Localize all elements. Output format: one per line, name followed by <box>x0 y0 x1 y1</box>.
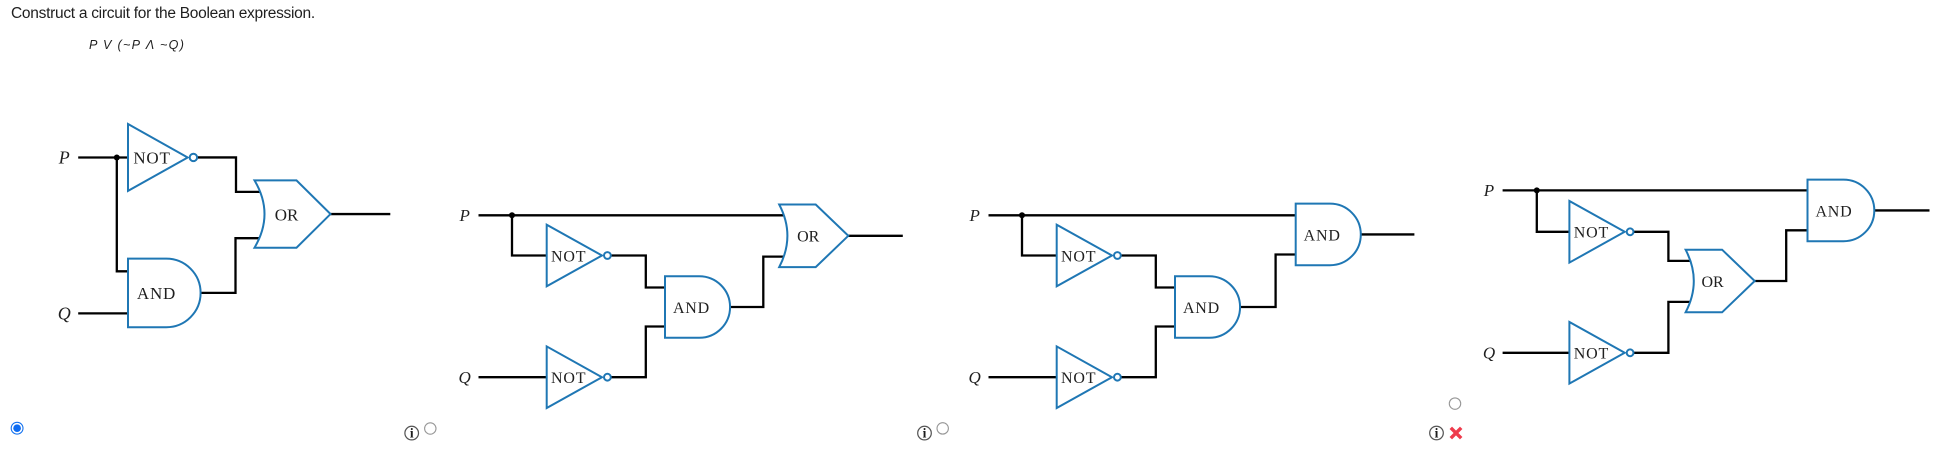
info icon option 3 <box>918 426 932 441</box>
svg-text:Q: Q <box>1483 344 1495 363</box>
wire AND output (circuit 4) <box>1874 209 1929 211</box>
wire OR output (circuit 1) <box>331 213 391 215</box>
junction on P (circuit 4) <box>1534 187 1540 193</box>
wire OR output (circuit 2) <box>848 235 903 237</box>
svg-text:i: i <box>1435 426 1439 441</box>
junction on P (circuit 1) <box>114 155 120 161</box>
wire P input to AND top input (circuit 4) <box>1503 189 1808 191</box>
wire NOT output to OR top input (circuit 1) <box>194 157 263 191</box>
svg-text:OR: OR <box>275 205 299 224</box>
wire junction to NOT1 input (circuit 3) <box>1022 215 1058 255</box>
svg-text:i: i <box>923 426 927 441</box>
OR gate U3 (circuit 4) <box>1686 250 1755 313</box>
svg-text:P: P <box>459 206 470 225</box>
wire NOT1 output to AND top input (circuit 2) <box>607 256 667 288</box>
wire P input (circuit 1) <box>78 156 128 158</box>
svg-text:i: i <box>410 426 414 441</box>
wire P input to final AND top input (circuit 3) <box>989 214 1296 216</box>
AND gate U4 (circuit 4) <box>1808 180 1875 242</box>
radio option 3 <box>937 423 948 434</box>
wire P input to OR top input (circuit 2) <box>479 214 788 216</box>
radio option 4 <box>1449 398 1460 409</box>
AND gate U3 (circuit 3) <box>1175 276 1240 338</box>
svg-text:AND: AND <box>1183 300 1220 317</box>
junction on P (circuit 2) <box>509 212 515 218</box>
wire NOT2 output to AND bottom input (circuit 2) <box>607 327 667 378</box>
incorrect mark (red X) option 4 <box>1451 428 1461 438</box>
svg-text:AND: AND <box>137 284 176 303</box>
svg-text:AND: AND <box>1304 227 1341 244</box>
svg-text:NOT: NOT <box>133 149 170 168</box>
svg-text:Q: Q <box>58 304 71 324</box>
NOT gate U2 (circuit 4) <box>1569 322 1633 384</box>
svg-text:NOT: NOT <box>1574 225 1609 242</box>
wire NOT1 output to OR top input (circuit 4) <box>1630 232 1692 261</box>
svg-text:P: P <box>969 206 980 225</box>
info icon option 4 <box>1430 426 1444 441</box>
svg-text:NOT: NOT <box>551 248 586 265</box>
wire NOT2 output to AND1 bottom input (circuit 3) <box>1117 327 1177 378</box>
svg-text:AND: AND <box>1815 203 1852 220</box>
NOT gate U1 (circuit 3) <box>1057 225 1121 287</box>
wire junction to NOT1 input (circuit 4) <box>1537 190 1571 231</box>
NOT gate U1 (circuit 2) <box>547 225 611 287</box>
NOT gate U2 (circuit 3) <box>1057 346 1121 408</box>
radio option 1 (selected) <box>11 422 23 434</box>
wire Q input (circuit 3) <box>989 376 1057 378</box>
info icon option 2 <box>405 426 419 441</box>
wire AND2 output (circuit 3) <box>1361 233 1415 235</box>
wire Q input (circuit 4) <box>1503 352 1570 354</box>
AND gate U3 (circuit 2) <box>665 276 730 338</box>
svg-text:NOT: NOT <box>551 370 586 387</box>
svg-text:NOT: NOT <box>1061 248 1096 265</box>
AND gate U4 (circuit 3) <box>1296 204 1361 266</box>
svg-text:AND: AND <box>673 300 710 317</box>
wire Q input (circuit 1) <box>78 312 128 314</box>
radio option 2 <box>425 423 436 434</box>
svg-text:NOT: NOT <box>1061 370 1096 387</box>
NOT gate U1 (circuit 1) <box>128 124 197 191</box>
AND gate U2 (circuit 1) <box>128 259 201 328</box>
wire OR output to AND bottom input (circuit 4) <box>1755 230 1808 281</box>
wire AND1 output to AND2 bottom input (circuit 3) <box>1240 255 1296 308</box>
svg-text:OR: OR <box>797 229 820 246</box>
wire junction to AND input (circuit 1) <box>117 158 129 272</box>
svg-text:Q: Q <box>459 368 471 387</box>
svg-text:NOT: NOT <box>1574 346 1609 363</box>
svg-text:Q: Q <box>969 368 981 387</box>
OR gate U3 (circuit 1) <box>255 180 331 247</box>
svg-text:P: P <box>58 148 70 168</box>
NOT gate U2 (circuit 2) <box>547 346 611 408</box>
wire AND output to OR bottom input (circuit 2) <box>730 257 787 307</box>
wire junction to NOT1 input (circuit 2) <box>512 215 548 255</box>
NOT gate U1 (circuit 4) <box>1569 201 1633 263</box>
wire Q input (circuit 2) <box>479 376 547 378</box>
OR gate U4 (circuit 2) <box>779 205 848 268</box>
junction on P (circuit 3) <box>1019 212 1025 218</box>
svg-text:P: P <box>1483 181 1494 200</box>
wire NOT1 output to AND1 top input (circuit 3) <box>1117 256 1177 288</box>
wire NOT2 output to OR bottom input (circuit 4) <box>1630 302 1692 353</box>
wire AND output to OR bottom input (circuit 1) <box>201 238 263 293</box>
svg-text:OR: OR <box>1701 274 1724 291</box>
